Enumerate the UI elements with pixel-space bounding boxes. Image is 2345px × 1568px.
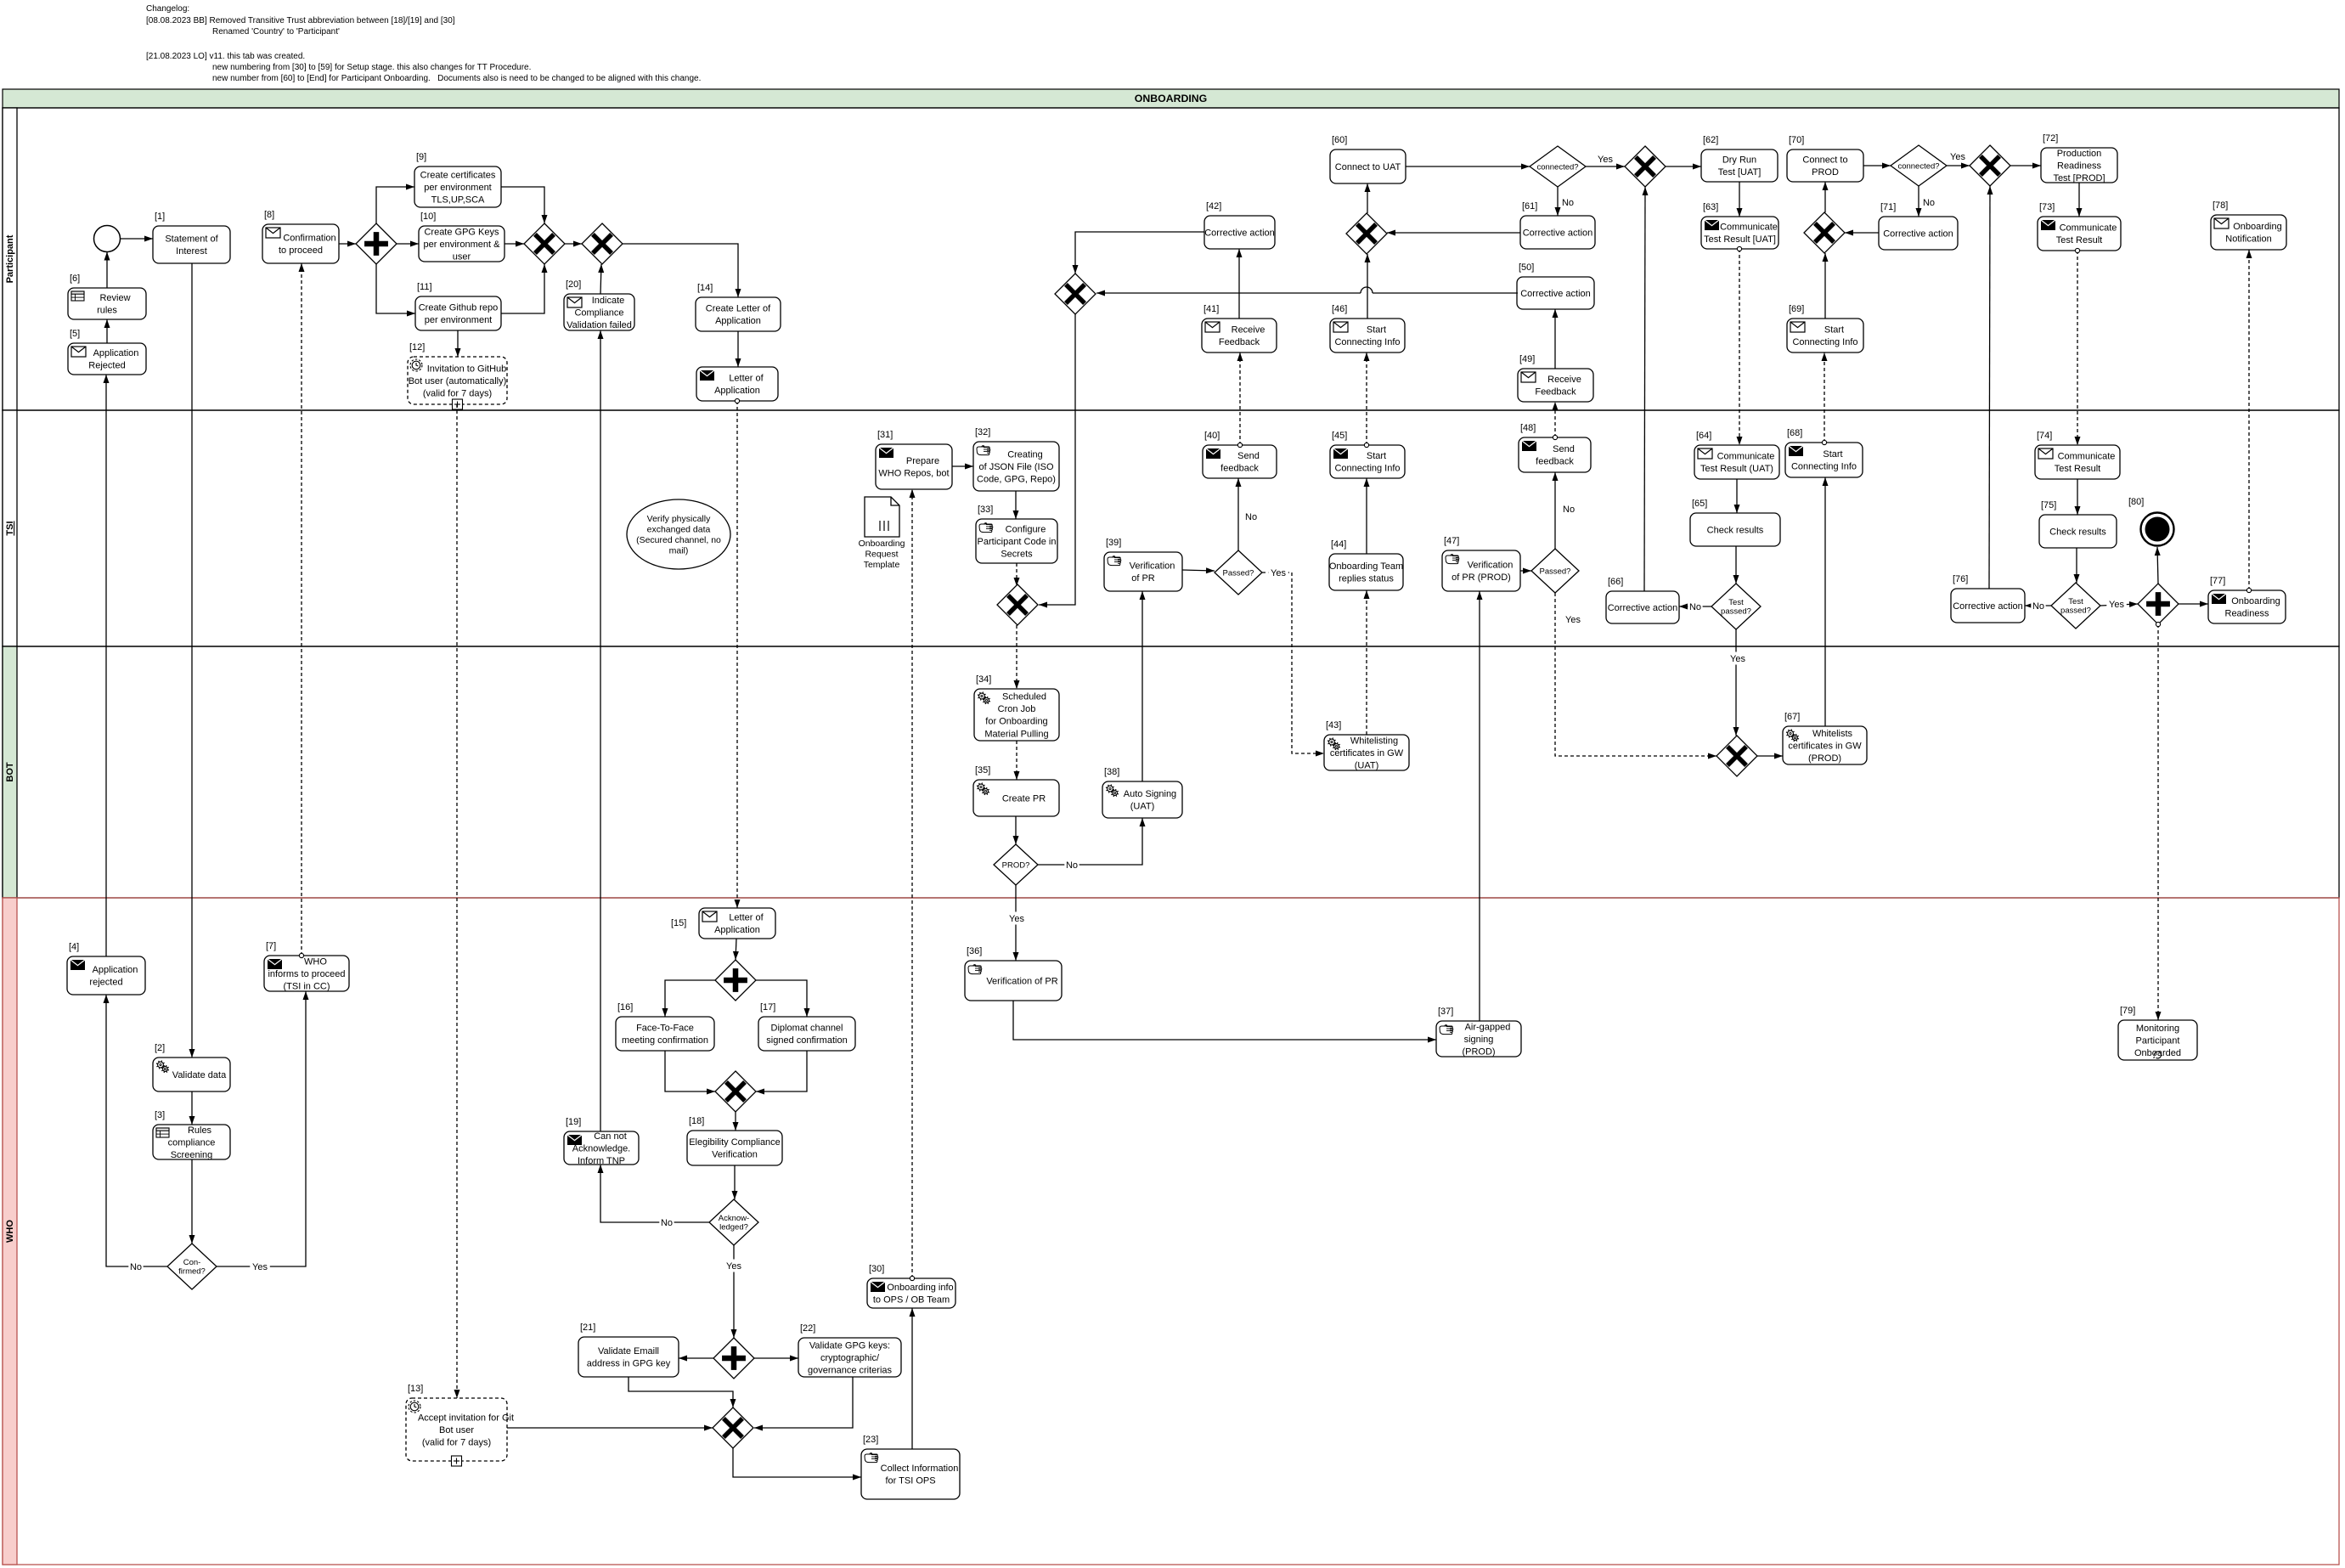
svg-text:[61]: [61]: [1522, 201, 1537, 212]
svg-text:(valid for 7 days): (valid for 7 days): [423, 388, 492, 398]
svg-text:Yes: Yes: [1565, 615, 1581, 625]
svg-text:[22]: [22]: [800, 1323, 815, 1334]
svg-text:(PROD): (PROD): [1808, 753, 1841, 764]
svg-text:[44]: [44]: [1331, 539, 1346, 550]
svg-text:No: No: [1689, 602, 1701, 612]
svg-text:Production: Production: [2057, 149, 2102, 159]
svg-text:Code, GPG, Repo): Code, GPG, Repo): [977, 474, 1056, 484]
svg-text:Scheduled: Scheduled: [1002, 691, 1046, 702]
svg-text:Verification: Verification: [712, 1150, 758, 1160]
svg-text:feedback: feedback: [1536, 457, 1574, 467]
svg-text:per environment: per environment: [425, 315, 493, 325]
svg-text:Acknowledge.: Acknowledge.: [572, 1143, 631, 1153]
svg-text:ONBOARDING: ONBOARDING: [1135, 93, 1207, 104]
svg-text:Review: Review: [99, 293, 130, 303]
svg-text:Validate data: Validate data: [172, 1070, 227, 1080]
svg-text:[14]: [14]: [697, 283, 713, 293]
svg-text:Validate Emaill: Validate Emaill: [598, 1346, 659, 1356]
svg-text:[40]: [40]: [1204, 431, 1220, 441]
svg-text:[76]: [76]: [1953, 574, 1968, 584]
svg-text:Verification: Verification: [1130, 561, 1175, 572]
svg-text:[78]: [78]: [2213, 200, 2228, 211]
svg-text:[38]: [38]: [1104, 767, 1119, 777]
svg-text:[15]: [15]: [671, 918, 686, 928]
svg-text:[21.08.2023 LO] v11. this tab: [21.08.2023 LO] v11. this tab was create…: [146, 52, 305, 61]
svg-text:Start: Start: [1823, 449, 1842, 460]
svg-text:Con-: Con-: [183, 1258, 201, 1267]
svg-text:Changelog:: Changelog:: [146, 4, 189, 14]
svg-text:connected?: connected?: [1897, 161, 1939, 171]
svg-text:new number from [60] to [End]: new number from [60] to [End] for Partic…: [212, 74, 701, 83]
svg-text:compliance: compliance: [168, 1137, 216, 1148]
svg-text:[65]: [65]: [1692, 499, 1707, 509]
svg-text:[30]: [30]: [869, 1264, 884, 1274]
svg-text:Create Letter of: Create Letter of: [706, 304, 771, 314]
svg-text:certificates in GW: certificates in GW: [1330, 748, 1404, 759]
svg-text:[2]: [2]: [155, 1043, 165, 1053]
svg-text:Application: Application: [714, 925, 760, 935]
svg-text:[20]: [20]: [566, 279, 581, 290]
svg-text:[5]: [5]: [70, 329, 80, 339]
svg-text:TSI: TSI: [5, 521, 15, 535]
svg-text:Monitoring: Monitoring: [2136, 1024, 2179, 1034]
svg-text:Passed?: Passed?: [1540, 567, 1571, 576]
svg-text:Indicate: Indicate: [592, 296, 625, 306]
svg-text:Notification: Notification: [2225, 234, 2271, 245]
svg-text:certificates in GW: certificates in GW: [1788, 741, 1862, 751]
svg-text:Invitation to GitHub: Invitation to GitHub: [427, 364, 507, 374]
svg-text:Participant: Participant: [5, 234, 15, 283]
svg-text:to proceed: to proceed: [279, 245, 323, 256]
svg-text:Collect Information: Collect Information: [881, 1464, 959, 1474]
svg-text:Accept invitation for Git: Accept invitation for Git: [418, 1413, 514, 1423]
svg-text:address in GPG key: address in GPG key: [587, 1359, 671, 1369]
svg-text:No: No: [661, 1218, 673, 1228]
svg-text:[8]: [8]: [264, 210, 274, 220]
svg-text:Yes: Yes: [1598, 155, 1613, 165]
svg-text:Letter of: Letter of: [729, 374, 764, 384]
svg-text:Test: Test: [2068, 597, 2083, 606]
svg-text:Creating: Creating: [1007, 449, 1043, 460]
svg-text:[21]: [21]: [580, 1323, 595, 1333]
svg-text:Letter of: Letter of: [729, 913, 764, 923]
svg-text:Create Github repo: Create Github repo: [419, 303, 499, 313]
svg-text:Face-To-Face: Face-To-Face: [636, 1024, 694, 1034]
svg-text:Corrective action: Corrective action: [1204, 228, 1275, 238]
svg-text:Diplomat channel: Diplomat channel: [771, 1024, 843, 1034]
svg-text:Yes: Yes: [726, 1261, 741, 1272]
svg-text:of PR (PROD): of PR (PROD): [1452, 572, 1511, 583]
svg-text:[73]: [73]: [2039, 202, 2055, 212]
svg-text:Verification of PR: Verification of PR: [986, 976, 1057, 986]
svg-text:Screening: Screening: [171, 1150, 213, 1160]
svg-text:No: No: [1923, 198, 1935, 208]
svg-text:Cron Job: Cron Job: [998, 704, 1036, 714]
svg-text:Connecting Info: Connecting Info: [1791, 462, 1857, 472]
svg-text:per environment &: per environment &: [424, 240, 501, 250]
svg-text:No: No: [1245, 512, 1257, 522]
svg-text:Participant Code in: Participant Code in: [978, 537, 1057, 547]
svg-text:connected?: connected?: [1536, 162, 1578, 172]
svg-text:ledged?: ledged?: [719, 1223, 748, 1232]
svg-text:Can not: Can not: [594, 1131, 627, 1142]
svg-text:[19]: [19]: [566, 1117, 581, 1127]
svg-text:[72]: [72]: [2043, 133, 2058, 144]
svg-text:[66]: [66]: [1608, 577, 1623, 587]
svg-text:[77]: [77]: [2210, 576, 2225, 586]
svg-text:Onboarding: Onboarding: [2233, 222, 2282, 232]
svg-text:passed?: passed?: [2060, 606, 2091, 616]
svg-text:[16]: [16]: [617, 1002, 633, 1012]
svg-text:No: No: [2032, 601, 2044, 612]
svg-text:Yes: Yes: [1271, 568, 1286, 578]
svg-text:signing: signing: [1464, 1035, 1494, 1045]
svg-text:Auto Signing: Auto Signing: [1124, 789, 1176, 799]
svg-text:[79]: [79]: [2120, 1006, 2135, 1016]
svg-text:[64]: [64]: [1696, 431, 1711, 441]
svg-text:Dry Run: Dry Run: [1722, 155, 1756, 166]
svg-text:Check results: Check results: [1707, 525, 1764, 535]
svg-text:Corrective action: Corrective action: [1883, 228, 1953, 239]
svg-text:[67]: [67]: [1784, 712, 1800, 722]
svg-text:for Onboarding: for Onboarding: [985, 717, 1047, 727]
svg-text:[11]: [11]: [417, 282, 432, 292]
svg-text:Application: Application: [715, 316, 761, 326]
svg-text:Passed?: Passed?: [1223, 568, 1254, 578]
svg-text:Rejected: Rejected: [88, 361, 125, 371]
svg-text:Send: Send: [1553, 444, 1575, 454]
svg-text:new numbering from [30] to [59: new numbering from [30] to [59] for Setu…: [212, 63, 531, 72]
svg-text:cryptographic/: cryptographic/: [820, 1353, 880, 1363]
svg-text:[80]: [80]: [2128, 497, 2144, 507]
svg-text:governance criterias: governance criterias: [808, 1365, 893, 1375]
svg-text:Test [UAT]: Test [UAT]: [1718, 167, 1762, 178]
svg-text:[70]: [70]: [1789, 135, 1804, 145]
svg-text:Rules: Rules: [188, 1125, 212, 1136]
svg-text:passed?: passed?: [1721, 607, 1751, 617]
svg-text:Receive: Receive: [1547, 375, 1581, 385]
svg-text:[49]: [49]: [1519, 354, 1535, 364]
svg-text:[43]: [43]: [1326, 720, 1341, 730]
svg-text:Request: Request: [865, 550, 898, 560]
svg-text:per environment: per environment: [424, 183, 492, 193]
svg-text:[18]: [18]: [689, 1116, 704, 1126]
svg-text:Onboarding: Onboarding: [2231, 596, 2280, 606]
svg-text:Check results: Check results: [2049, 527, 2106, 537]
svg-text:Readiness: Readiness: [2057, 161, 2101, 171]
svg-text:Application: Application: [93, 348, 139, 358]
svg-text:Corrective action: Corrective action: [1953, 601, 2023, 612]
svg-text:Yes: Yes: [1730, 654, 1745, 664]
svg-text:[69]: [69]: [1789, 304, 1804, 314]
svg-text:[45]: [45]: [1332, 431, 1347, 441]
svg-text:(UAT): (UAT): [1130, 802, 1155, 812]
svg-text:Verify physically: Verify physically: [647, 514, 711, 524]
svg-text:[46]: [46]: [1332, 304, 1347, 314]
svg-text:Material Pulling: Material Pulling: [984, 729, 1048, 739]
svg-text:Whitelists: Whitelists: [1812, 729, 1853, 739]
svg-text:for TSI OPS: for TSI OPS: [885, 1476, 935, 1486]
svg-text:Start: Start: [1367, 325, 1386, 336]
svg-text:Test Result: Test Result: [2055, 464, 2100, 474]
svg-text:[75]: [75]: [2041, 500, 2056, 510]
svg-text:Yes: Yes: [1950, 152, 1965, 162]
svg-text:No: No: [130, 1262, 142, 1272]
svg-text:Renamed 'Country' to 'Particip: Renamed 'Country' to 'Participant': [212, 27, 340, 37]
svg-text:[34]: [34]: [976, 674, 991, 685]
svg-text:Verification: Verification: [1468, 561, 1514, 571]
svg-text:Readiness: Readiness: [2225, 609, 2269, 619]
svg-text:to OPS / OB Team: to OPS / OB Team: [873, 1295, 950, 1306]
svg-text:Elegibility Compliance: Elegibility Compliance: [689, 1137, 781, 1148]
svg-text:[9]: [9]: [416, 152, 426, 162]
svg-text:Onboarded: Onboarded: [2134, 1048, 2181, 1058]
svg-text:Bot user: Bot user: [439, 1425, 474, 1435]
svg-text:[31]: [31]: [877, 430, 893, 440]
svg-text:Application: Application: [93, 965, 138, 975]
svg-text:Corrective action: Corrective action: [1608, 603, 1678, 613]
svg-text:[3]: [3]: [155, 1110, 165, 1120]
svg-text:[41]: [41]: [1204, 304, 1219, 314]
svg-text:Confirmation: Confirmation: [283, 234, 335, 244]
svg-text:[50]: [50]: [1519, 262, 1534, 273]
svg-text:[6]: [6]: [70, 274, 80, 284]
svg-text:of JSON File (ISO: of JSON File (ISO: [978, 462, 1053, 472]
svg-text:Test Result (UAT): Test Result (UAT): [1700, 464, 1773, 474]
svg-text:Create PR: Create PR: [1002, 793, 1046, 804]
svg-text:[23]: [23]: [863, 1435, 878, 1445]
svg-text:Yes: Yes: [1009, 914, 1024, 924]
svg-text:[12]: [12]: [409, 342, 425, 353]
svg-text:Interest: Interest: [176, 246, 207, 257]
svg-text:Yes: Yes: [252, 1262, 268, 1272]
svg-text:Test Result [UAT]: Test Result [UAT]: [1704, 234, 1776, 245]
svg-text:Corrective action: Corrective action: [1523, 228, 1593, 238]
svg-text:user: user: [453, 251, 471, 262]
svg-text:[33]: [33]: [978, 505, 993, 515]
svg-text:Test [PROD]: Test [PROD]: [2053, 173, 2105, 183]
svg-text:Template: Template: [864, 560, 900, 570]
svg-text:[10]: [10]: [420, 212, 436, 222]
svg-text:[4]: [4]: [69, 942, 79, 952]
svg-text:Compliance: Compliance: [574, 307, 623, 318]
svg-text:Onboarding info: Onboarding info: [887, 1283, 953, 1293]
svg-text:Onboarding: Onboarding: [859, 539, 905, 549]
svg-text:[71]: [71]: [1880, 202, 1896, 212]
svg-text:[08.08.2023 BB] Removed Transi: [08.08.2023 BB] Removed Transitive Trust…: [146, 16, 455, 25]
svg-text:[32]: [32]: [975, 427, 990, 437]
svg-text:Onboarding Team: Onboarding Team: [1329, 561, 1403, 572]
svg-text:Connecting Info: Connecting Info: [1334, 464, 1400, 474]
svg-text:Communicate: Communicate: [2058, 452, 2116, 462]
svg-text:[13]: [13]: [408, 1384, 423, 1394]
svg-text:Communicate: Communicate: [1717, 452, 1775, 462]
svg-text:[68]: [68]: [1787, 428, 1802, 438]
svg-text:[35]: [35]: [975, 765, 990, 776]
svg-text:(valid for 7 days): (valid for 7 days): [422, 1437, 491, 1447]
svg-text:replies status: replies status: [1339, 574, 1394, 584]
svg-text:[47]: [47]: [1444, 536, 1459, 546]
svg-text:Yes: Yes: [2109, 600, 2124, 610]
svg-text:Create certificates: Create certificates: [420, 170, 496, 180]
svg-text:Connecting Info: Connecting Info: [1334, 337, 1400, 347]
svg-text:Air-gapped: Air-gapped: [1465, 1022, 1511, 1032]
svg-text:[42]: [42]: [1206, 201, 1221, 212]
svg-text:signed confirmation: signed confirmation: [766, 1035, 847, 1046]
svg-text:Start: Start: [1824, 325, 1844, 336]
svg-text:[36]: [36]: [967, 946, 982, 956]
svg-text:(PROD): (PROD): [1462, 1046, 1495, 1057]
svg-text:BOT: BOT: [5, 762, 15, 782]
svg-text:Secrets: Secrets: [1001, 549, 1033, 559]
svg-text:rejected: rejected: [89, 978, 122, 988]
svg-text:WHO Repos, bot: WHO Repos, bot: [878, 469, 949, 479]
svg-text:Start: Start: [1367, 451, 1386, 461]
svg-text:TLS,UP,SCA: TLS,UP,SCA: [431, 195, 485, 205]
svg-text:PROD: PROD: [1812, 167, 1839, 178]
svg-text:Configure: Configure: [1006, 524, 1046, 534]
svg-text:Connecting Info: Connecting Info: [1792, 337, 1857, 347]
svg-text:WHO: WHO: [5, 1220, 15, 1243]
svg-text:[62]: [62]: [1703, 135, 1718, 145]
svg-text:Acknow-: Acknow-: [719, 1214, 749, 1223]
svg-text:Communicate: Communicate: [2060, 223, 2117, 234]
svg-text:Feedback: Feedback: [1219, 337, 1260, 347]
svg-text:(Secured channel, no: (Secured channel, no: [636, 535, 721, 545]
svg-text:PROD?: PROD?: [1002, 860, 1030, 870]
svg-text:No: No: [1563, 505, 1575, 515]
svg-text:[74]: [74]: [2037, 431, 2052, 441]
svg-text:informs to proceed: informs to proceed: [268, 969, 345, 979]
svg-text:Feedback: Feedback: [1535, 387, 1576, 398]
svg-text:rules: rules: [97, 306, 117, 316]
svg-text:Validation failed: Validation failed: [567, 320, 632, 330]
svg-text:[60]: [60]: [1332, 135, 1347, 145]
svg-text:firmed?: firmed?: [178, 1267, 206, 1277]
svg-text:feedback: feedback: [1220, 464, 1259, 474]
svg-text:[63]: [63]: [1703, 202, 1718, 212]
svg-text:Inform TNP: Inform TNP: [578, 1156, 625, 1166]
svg-text:Test Result: Test Result: [2056, 235, 2102, 245]
svg-text:Corrective action: Corrective action: [1520, 289, 1591, 299]
svg-text:No: No: [1066, 860, 1078, 871]
svg-text:[17]: [17]: [760, 1002, 775, 1012]
svg-text:(UAT): (UAT): [1355, 760, 1379, 770]
svg-text:[37]: [37]: [1438, 1007, 1453, 1017]
svg-text:Send: Send: [1237, 451, 1260, 461]
svg-text:[7]: [7]: [266, 941, 276, 951]
svg-text:Create GPG Keys: Create GPG Keys: [424, 227, 499, 237]
svg-text:No: No: [1562, 198, 1574, 208]
svg-text:Communicate: Communicate: [1720, 223, 1778, 233]
svg-text:Application: Application: [714, 386, 760, 396]
svg-text:Statement of: Statement of: [165, 234, 218, 245]
svg-text:Bot user (automatically): Bot user (automatically): [409, 376, 507, 386]
svg-text:WHO: WHO: [304, 956, 327, 967]
svg-text:(TSI in CC): (TSI in CC): [284, 981, 330, 991]
svg-text:Validate GPG keys:: Validate GPG keys:: [809, 1340, 890, 1351]
svg-text:Prepare: Prepare: [906, 456, 939, 466]
svg-text:of PR: of PR: [1131, 573, 1155, 584]
svg-text:Test: Test: [1728, 598, 1744, 607]
svg-text:[1]: [1]: [155, 212, 165, 222]
svg-text:[48]: [48]: [1520, 423, 1536, 433]
svg-text:[39]: [39]: [1106, 538, 1121, 548]
svg-text:Receive: Receive: [1232, 325, 1266, 336]
svg-text:Participant: Participant: [2136, 1035, 2180, 1046]
svg-text:mail): mail): [669, 545, 689, 556]
svg-text:meeting confirmation: meeting confirmation: [622, 1035, 708, 1046]
svg-text:Connect to UAT: Connect to UAT: [1335, 162, 1401, 172]
svg-text:exchanged data: exchanged data: [647, 524, 711, 534]
svg-text:Whitelisting: Whitelisting: [1350, 736, 1398, 746]
svg-text:Connect to: Connect to: [1802, 155, 1847, 166]
